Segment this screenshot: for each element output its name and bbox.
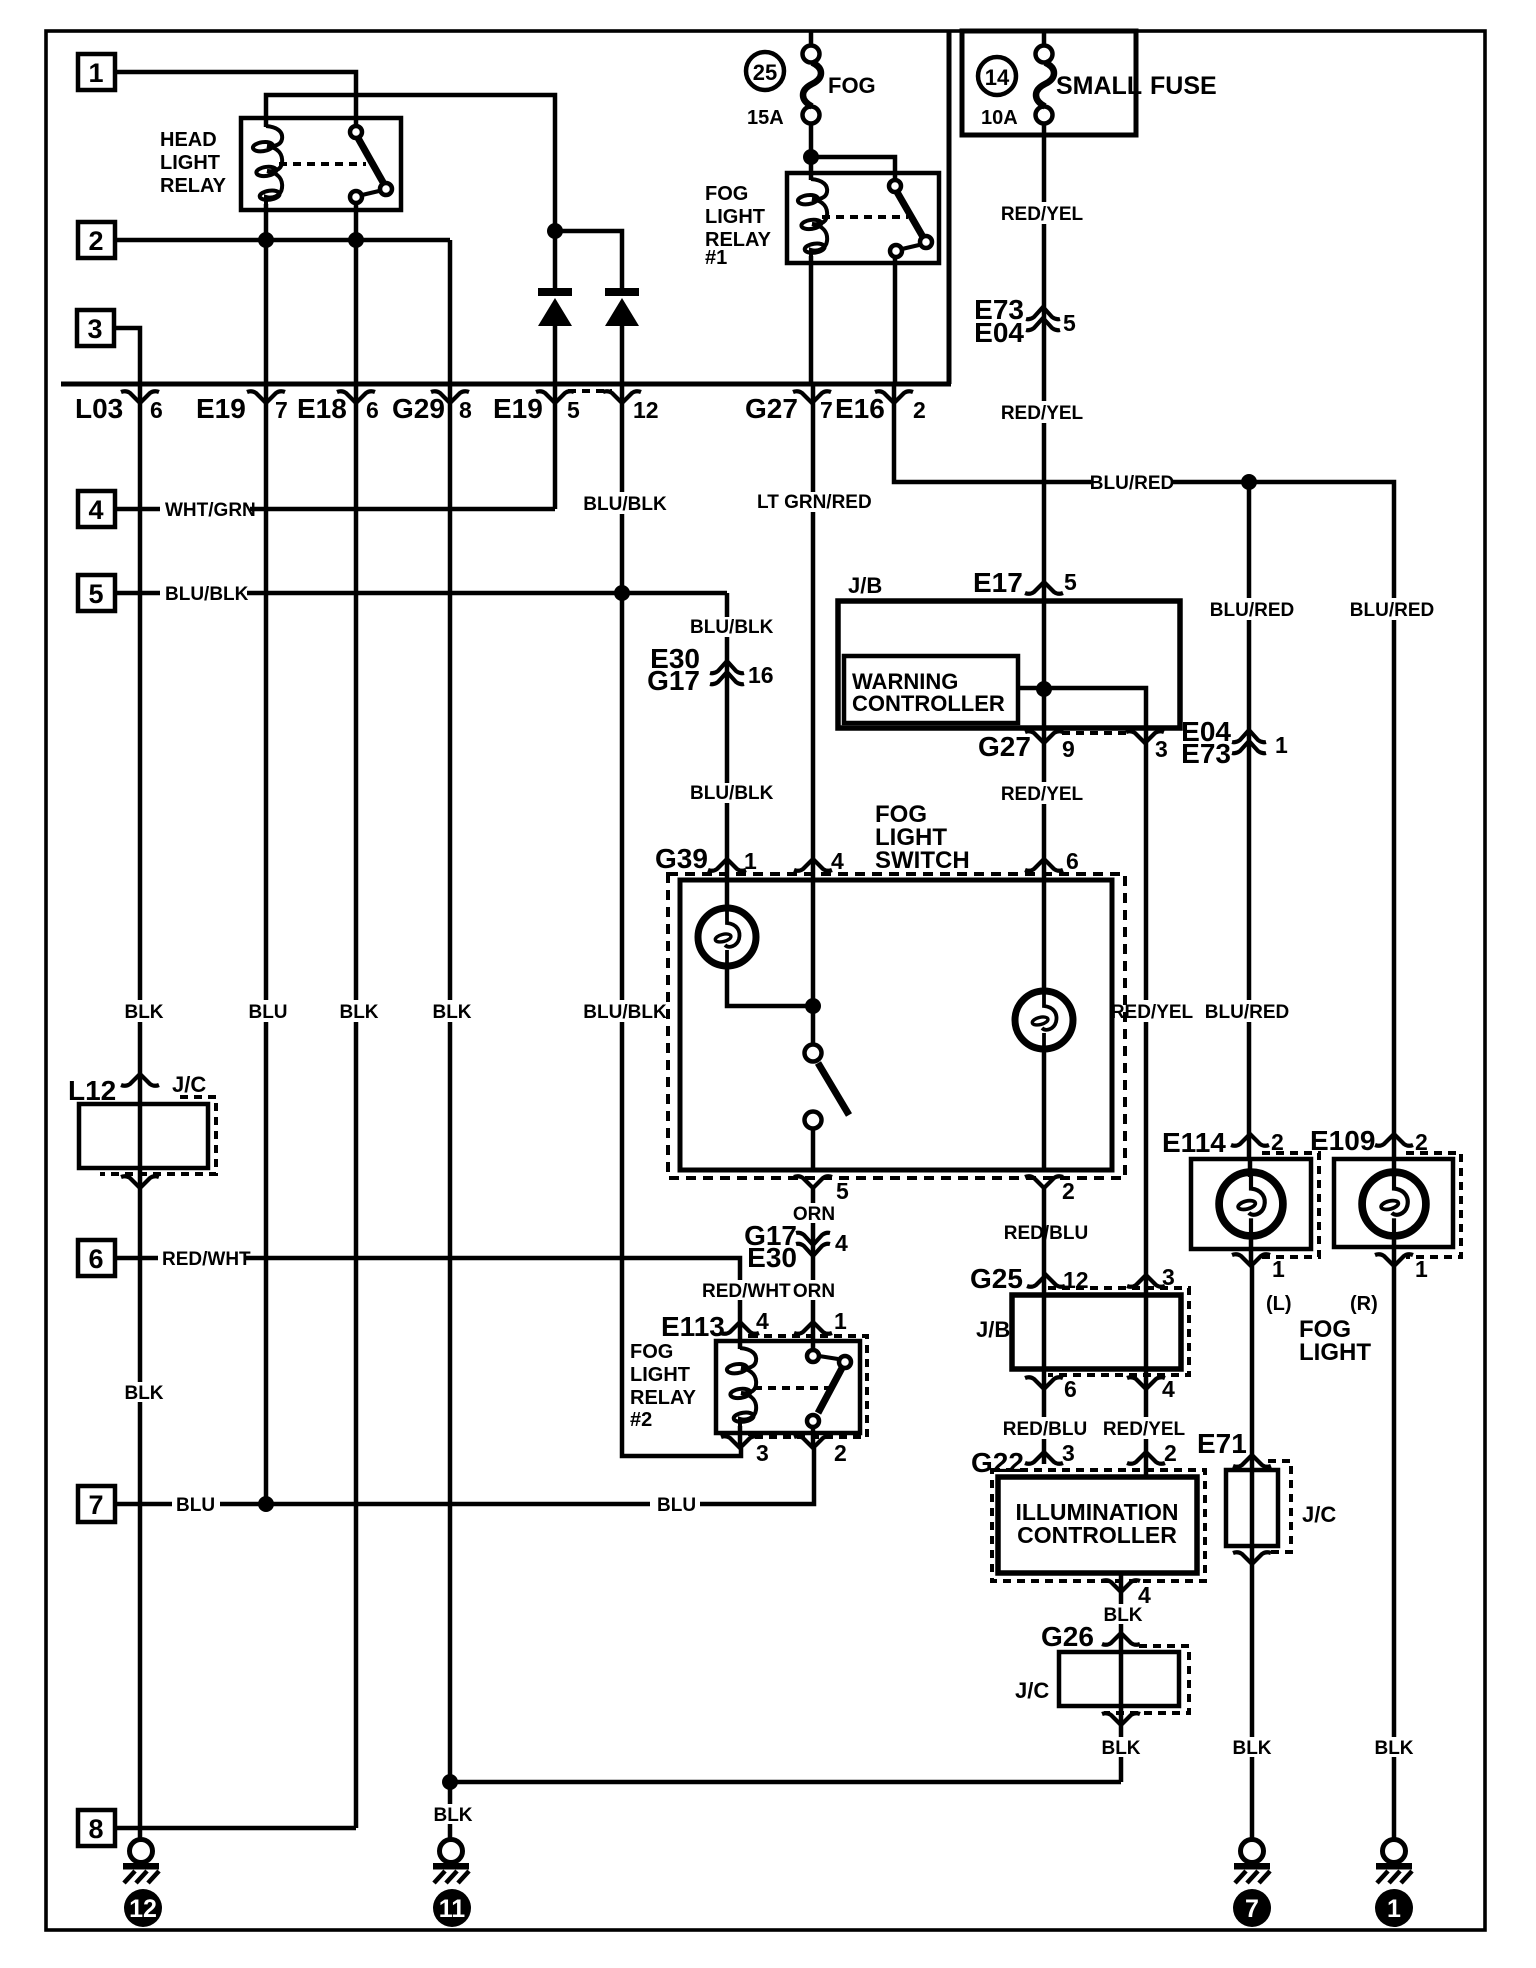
- connector E17-5: [1025, 582, 1063, 594]
- connector pin 12 (dashed pair): [603, 391, 641, 403]
- svg-text:7: 7: [88, 1490, 103, 1520]
- svg-text:BLU/BLK: BLU/BLK: [165, 584, 249, 605]
- svg-text:BLU/BLK: BLU/BLK: [690, 617, 774, 638]
- wire from box 3 to L03 line: [114, 328, 140, 384]
- label BLU/BLK near box4 level on x622 line: [583, 492, 667, 515]
- connector G22-2: [1127, 1452, 1165, 1464]
- ground 1: [1376, 1840, 1412, 1884]
- svg-text:J/C: J/C: [1302, 1502, 1336, 1527]
- svg-text:RED/YEL: RED/YEL: [1001, 403, 1084, 424]
- svg-text:4: 4: [835, 1230, 848, 1256]
- label ORN: [793, 1203, 835, 1225]
- svg-text:1: 1: [1272, 1256, 1285, 1282]
- connector G39-2: [1025, 1176, 1063, 1188]
- svg-text:LIGHT: LIGHT: [705, 206, 765, 228]
- svg-text:3: 3: [756, 1440, 769, 1466]
- connector E18-6: [337, 391, 375, 403]
- wire BLK from G22-4 down through G26: [1119, 1592, 1124, 1782]
- wire coil stub: [809, 157, 814, 180]
- fuse 14 element: [1036, 46, 1055, 124]
- svg-text:1: 1: [88, 58, 103, 88]
- label BLU/RED on x1249 lower: [1205, 1000, 1289, 1023]
- connector E114-1: [1232, 1254, 1270, 1266]
- wire coil stub: [264, 118, 269, 127]
- node: junction dot above relay: [803, 149, 819, 165]
- wire switch bottom to node: [354, 203, 359, 240]
- connector E16-2: [875, 391, 913, 403]
- solid J/C box: [1059, 1652, 1179, 1706]
- svg-text:6: 6: [150, 397, 163, 423]
- solid J/B box: [1012, 1295, 1181, 1369]
- dashed outline: [1262, 1153, 1319, 1257]
- svg-text:E17: E17: [973, 567, 1023, 598]
- connector G27-9: [1025, 731, 1063, 743]
- svg-text:E114: E114: [1162, 1127, 1226, 1158]
- wire: horizontal bus: [61, 382, 951, 387]
- svg-text:BLU/BLK: BLU/BLK: [583, 1002, 667, 1023]
- connector E113-3: [721, 1436, 759, 1448]
- wire x813 inside switch: [811, 874, 816, 1044]
- connector E114-2: [1231, 1134, 1269, 1146]
- wire LT GRN/RED from bus G27-7 down to switch G39-4: [811, 384, 816, 874]
- svg-text:G26: G26: [1041, 1621, 1094, 1652]
- fuse 25 circled number: [746, 52, 784, 90]
- fuse 25 element: [803, 46, 822, 124]
- svg-text:WHT/GRN: WHT/GRN: [165, 500, 256, 521]
- svg-text:FOG: FOG: [705, 183, 748, 205]
- label BLK on L03 line: [124, 1000, 164, 1023]
- svg-text:1: 1: [1275, 732, 1288, 758]
- connector G27-7: [793, 391, 831, 403]
- wire fuse to junction: [809, 124, 814, 157]
- wire ORN from switch pin5: [811, 1188, 816, 1341]
- dashed outline: [992, 1470, 1205, 1581]
- svg-text:4: 4: [831, 848, 844, 874]
- dashed outline: [1268, 1461, 1291, 1552]
- connector E30/G17-16 double chevron: [710, 661, 744, 684]
- svg-text:BLU/BLK: BLU/BLK: [583, 494, 667, 515]
- node: junction dot BLU/RED: [1241, 474, 1257, 490]
- svg-text:RED/WHT: RED/WHT: [702, 1281, 791, 1302]
- svg-text:L03: L03: [75, 393, 123, 424]
- wire RED/YEL x1044 J/B to switch: [1042, 601, 1047, 874]
- wire RED/WHT from box 6 to E113 pin4: [115, 1256, 158, 1261]
- svg-text:BLK: BLK: [433, 1805, 472, 1826]
- svg-text:E109: E109: [1310, 1125, 1375, 1156]
- connector E113-2: [794, 1436, 832, 1448]
- label RED/WHT above E113: [700, 1280, 791, 1302]
- svg-text:1: 1: [1387, 1895, 1401, 1923]
- solid J/C box: [1226, 1470, 1278, 1546]
- svg-text:4: 4: [88, 495, 103, 525]
- label BLK on G29 line: [432, 1000, 472, 1023]
- label RED/YEL below G27-9: [1001, 782, 1084, 805]
- svg-text:7: 7: [820, 397, 833, 423]
- connector E04/E73-1 double chevron: [1232, 730, 1266, 753]
- svg-text:LIGHT: LIGHT: [1299, 1339, 1371, 1366]
- svg-text:E73: E73: [1181, 738, 1231, 769]
- connector E71 bottom chevron: [1233, 1552, 1271, 1564]
- wire G29 line BLK: [448, 240, 453, 1839]
- svg-text:BLU/BLK: BLU/BLK: [690, 783, 774, 804]
- svg-text:5: 5: [567, 397, 580, 423]
- svg-text:BLK: BLK: [432, 1002, 471, 1023]
- solid box: [1191, 1159, 1311, 1249]
- solid J/C box: [79, 1104, 208, 1168]
- svg-text:E04: E04: [974, 317, 1024, 348]
- svg-text:E71: E71: [1197, 1428, 1247, 1459]
- wire BLU/BLK line x622 down to E113 pin3: [622, 593, 741, 1456]
- fuse 14 circled number: [978, 57, 1016, 95]
- svg-text:J/C: J/C: [172, 1072, 206, 1097]
- svg-text:HEAD: HEAD: [160, 129, 217, 151]
- diode D1: [538, 288, 572, 326]
- svg-text:11: 11: [439, 1895, 466, 1923]
- dashed actuation link: [279, 162, 366, 166]
- svg-text:J/C: J/C: [1015, 1678, 1049, 1703]
- svg-text:#1: #1: [705, 247, 727, 269]
- connector G25-4: [1127, 1377, 1165, 1389]
- svg-text:(R): (R): [1350, 1293, 1378, 1315]
- warning controller U1 box: [844, 656, 1018, 723]
- wire E109 down to ground 1: [1392, 1266, 1397, 1839]
- svg-text:8: 8: [459, 397, 472, 423]
- svg-text:RED/WHT: RED/WHT: [162, 1249, 251, 1270]
- svg-text:FOG: FOG: [828, 73, 876, 98]
- label BLK on E18 line: [339, 1000, 379, 1023]
- wire from E114 pin1 down to ground 7: [1250, 1266, 1255, 1839]
- wire BLK horizontal to G26: [450, 1780, 1121, 1785]
- wire L03 line BLK: [138, 384, 143, 1839]
- connector G25-12: [1027, 1275, 1065, 1287]
- connector L12 bottom chevron: [121, 1176, 159, 1188]
- svg-text:5: 5: [1063, 310, 1076, 336]
- svg-text:BLK: BLK: [339, 1002, 378, 1023]
- connector G17/E30-4 double chevron: [796, 1233, 830, 1256]
- svg-text:BLK: BLK: [1232, 1738, 1271, 1759]
- connector E109-1: [1375, 1254, 1413, 1266]
- dashed actuation link: [754, 1386, 838, 1390]
- connector E19-7: [247, 391, 285, 403]
- svg-text:RED/YEL: RED/YEL: [1001, 204, 1084, 225]
- svg-text:25: 25: [753, 60, 777, 85]
- wire BLU/BLK from box 5: [115, 591, 160, 596]
- svg-text:ORN: ORN: [793, 1204, 835, 1225]
- svg-text:BLK: BLK: [124, 1383, 163, 1404]
- wire fuse top stub: [809, 31, 814, 46]
- label ORN lower: [793, 1280, 835, 1302]
- svg-text:1: 1: [1415, 1256, 1428, 1282]
- svg-text:G22: G22: [971, 1447, 1024, 1478]
- label BLU/BLK on x727 line lower: [688, 783, 774, 804]
- connector E113-1: [794, 1322, 832, 1334]
- svg-text:J/B: J/B: [976, 1317, 1010, 1342]
- wire E18 line BLK: [354, 240, 359, 1828]
- svg-text:L12: L12: [68, 1075, 116, 1106]
- connector G22-3: [1025, 1452, 1063, 1464]
- node: junction dot on diode-12 line: [614, 585, 630, 601]
- label BLU/BLK on x622 line: [583, 1000, 667, 1023]
- relay K2 contacts and blade: [889, 180, 901, 192]
- svg-text:3: 3: [1155, 736, 1168, 762]
- ground 11: [433, 1840, 469, 1884]
- svg-text:2: 2: [834, 1440, 847, 1466]
- svg-text:1: 1: [744, 848, 757, 874]
- dashed outline: [100, 1097, 216, 1174]
- svg-text:LIGHT: LIGHT: [630, 1364, 690, 1386]
- svg-text:3: 3: [87, 314, 102, 344]
- label RED/YEL below G25: [1103, 1417, 1186, 1440]
- connector G22-4: [1102, 1580, 1140, 1592]
- wire lamp1 to switch node: [727, 966, 813, 1006]
- svg-text:RED/YEL: RED/YEL: [1103, 1419, 1186, 1440]
- relay K3 fog light relay 2 body: [716, 1341, 860, 1433]
- wire fuse top stub: [1042, 31, 1047, 46]
- node: junction dot E19 line: [258, 232, 274, 248]
- label BLK: [124, 1382, 164, 1404]
- solid box: [1334, 1159, 1453, 1247]
- svg-text:BLK: BLK: [124, 1002, 163, 1023]
- connector L12 top chevron: [121, 1074, 159, 1086]
- svg-text:14: 14: [985, 65, 1010, 90]
- svg-text:7: 7: [1245, 1895, 1259, 1923]
- label BLK below: [1101, 1737, 1141, 1759]
- label BLU/RED on horizontal: [1090, 471, 1174, 494]
- svg-text:SWITCH: SWITCH: [875, 847, 970, 874]
- switch blade: [818, 1063, 849, 1115]
- diode D2: [605, 288, 639, 326]
- label RED/BLU above G25: [1004, 1221, 1088, 1244]
- connector G29-8: [431, 391, 469, 403]
- wire: vertical from top border to bus: [947, 31, 952, 384]
- svg-text:RED/YEL: RED/YEL: [1001, 784, 1084, 805]
- connector G25-3: [1127, 1275, 1165, 1287]
- label BLU/BLK on x727 line upper: [688, 617, 774, 638]
- node: junction dot on E19/BLU line: [258, 1496, 274, 1512]
- label BLK: [1103, 1604, 1143, 1626]
- label RED/YEL on x1146: [1111, 1000, 1194, 1023]
- connector E19-5: [536, 391, 574, 403]
- wire switch bottom to bus E16-2: [893, 257, 898, 384]
- svg-text:G39: G39: [655, 843, 708, 874]
- svg-text:E19: E19: [196, 393, 246, 424]
- relay K1 contacts and blade: [350, 126, 362, 138]
- svg-text:G27: G27: [745, 393, 798, 424]
- node: junction dot diode branch: [547, 223, 563, 239]
- svg-text:#2: #2: [630, 1409, 652, 1431]
- svg-text:E16: E16: [835, 393, 885, 424]
- svg-text:G17: G17: [647, 665, 700, 696]
- connector E71 top chevron: [1233, 1455, 1271, 1467]
- connector G39-1: [708, 859, 746, 871]
- svg-text:J/B: J/B: [848, 573, 882, 598]
- wire E16 down and right: [894, 384, 1394, 1159]
- svg-text:9: 9: [1062, 736, 1075, 762]
- svg-text:BLU/RED: BLU/RED: [1210, 600, 1294, 621]
- label BLK: [1374, 1737, 1414, 1759]
- connector G26 top chevron: [1102, 1633, 1140, 1645]
- svg-text:2: 2: [88, 226, 103, 256]
- wire from box 8 to E18 line: [115, 1826, 356, 1831]
- label BLU on E19 line: [248, 1000, 288, 1023]
- svg-text:6: 6: [88, 1244, 103, 1274]
- wire from box 1 to head light relay switch: [115, 72, 356, 126]
- connector L03-6: [121, 391, 159, 403]
- junction block J/B box: [838, 601, 1180, 728]
- node: junction dot in J/B: [1036, 681, 1052, 697]
- svg-text:BLK: BLK: [1374, 1738, 1413, 1759]
- wire branch to second diode: [555, 231, 622, 288]
- svg-text:6: 6: [366, 397, 379, 423]
- wire WHT/GRN from box 4: [115, 507, 160, 512]
- connector G26 bottom chevron: [1102, 1713, 1140, 1725]
- dashed outline: [1048, 1288, 1189, 1375]
- svg-text:3: 3: [1062, 1440, 1075, 1466]
- label BLU/RED on x1394: [1350, 598, 1434, 621]
- svg-text:15A: 15A: [747, 107, 784, 129]
- connector G39-6: [1025, 859, 1063, 871]
- svg-text:1: 1: [834, 1308, 847, 1334]
- connector E113-4: [721, 1322, 759, 1334]
- connector E109-2: [1375, 1134, 1413, 1146]
- dashed outer box: [668, 874, 1125, 1178]
- dashed pair bracket 9-3: [1062, 731, 1128, 735]
- switch contact bottom: [805, 1112, 822, 1129]
- wire coil bottom to bus G27-7: [809, 256, 814, 384]
- svg-text:BLK: BLK: [1103, 1605, 1142, 1626]
- ground 12: [123, 1840, 159, 1884]
- svg-text:5: 5: [88, 579, 103, 609]
- wire RED/YEL fuse to J/B E17-5: [1042, 124, 1047, 601]
- svg-text:SMALL: SMALL: [1056, 72, 1142, 100]
- relay coil: [726, 1348, 756, 1426]
- relay coil: [252, 126, 282, 204]
- dashed outline: [1406, 1153, 1461, 1257]
- svg-text:2: 2: [1062, 1178, 1075, 1204]
- connector G39-5: [794, 1176, 832, 1188]
- wire coil stubs: [738, 1341, 743, 1349]
- label BLK on G29 line below junction: [433, 1804, 473, 1826]
- svg-text:6: 6: [1066, 848, 1079, 874]
- dashed outline: [750, 1336, 867, 1437]
- svg-text:16: 16: [748, 662, 774, 688]
- label RED/BLU below G25: [1003, 1417, 1087, 1440]
- dashed actuation link: [822, 215, 908, 219]
- relay K2 fog light relay 1 body: [787, 173, 939, 263]
- svg-text:BLU: BLU: [176, 1495, 215, 1516]
- svg-text:FOG: FOG: [630, 1341, 673, 1363]
- svg-text:BLU: BLU: [248, 1002, 287, 1023]
- node: junction dot in switch: [805, 998, 821, 1014]
- ground 7: [1234, 1840, 1270, 1884]
- svg-text:4: 4: [756, 1308, 769, 1334]
- svg-text:FUSE: FUSE: [1150, 72, 1217, 100]
- svg-text:CONTROLLER: CONTROLLER: [1017, 1522, 1177, 1548]
- svg-text:2: 2: [1164, 1440, 1177, 1466]
- svg-text:4: 4: [1162, 1376, 1175, 1402]
- wire to chevron 4: [1119, 1573, 1124, 1592]
- relay K1 head light relay body: [241, 118, 401, 210]
- solid controller box: [998, 1477, 1197, 1573]
- svg-text:E19: E19: [493, 393, 543, 424]
- wire RED/YEL from G27-3 down: [1144, 743, 1149, 1477]
- svg-text:BLU/RED: BLU/RED: [1205, 1002, 1289, 1023]
- svg-text:LT GRN/RED: LT GRN/RED: [757, 492, 872, 513]
- wire E19 line BLU: [264, 240, 269, 1504]
- svg-text:CONTROLLER: CONTROLLER: [852, 691, 1005, 716]
- node: junction dot E18 line: [348, 232, 364, 248]
- relay K3 contacts and blade: [811, 1341, 816, 1349]
- svg-text:5: 5: [836, 1178, 849, 1204]
- fuse box outline: [962, 31, 1136, 135]
- lamp E109 fog light bulb (R): [1392, 1159, 1397, 1177]
- wire: coil top to diode line: [266, 95, 555, 231]
- svg-text:ORN: ORN: [793, 1281, 835, 1302]
- svg-text:E113: E113: [661, 1311, 725, 1342]
- node: junction dot on G29 line: [442, 1774, 458, 1790]
- label BLU/RED on x1249: [1210, 598, 1294, 621]
- svg-text:BLU: BLU: [657, 1495, 696, 1516]
- connector G39-4: [794, 859, 832, 871]
- switch S1 contacts: [805, 1045, 822, 1062]
- svg-text:6: 6: [1064, 1376, 1077, 1402]
- svg-text:LIGHT: LIGHT: [160, 152, 220, 174]
- svg-text:8: 8: [88, 1814, 103, 1844]
- svg-text:RED/BLU: RED/BLU: [1003, 1419, 1087, 1440]
- svg-text:G25: G25: [970, 1263, 1023, 1294]
- label LT GRN/RED: [753, 492, 872, 513]
- svg-text:7: 7: [275, 397, 288, 423]
- svg-text:12: 12: [129, 1895, 157, 1923]
- connector E73/E04-5 double chevron: [1026, 307, 1060, 330]
- wire BLU/BLK branch x727 to G39-1: [725, 593, 730, 874]
- svg-text:RELAY: RELAY: [630, 1387, 697, 1409]
- lamp L1 switch illumination bulb: [725, 874, 730, 908]
- dashed outline: [1104, 1646, 1189, 1713]
- relay coil: [797, 179, 827, 257]
- wire junction to switch contact: [811, 157, 895, 180]
- wire RED/BLU from switch pin2 through G25: [1042, 1188, 1047, 1464]
- svg-text:(L): (L): [1266, 1293, 1292, 1315]
- connector G25-6: [1025, 1377, 1063, 1389]
- wire from warning controller: [1018, 688, 1146, 743]
- lamp L2 switch indicator bulb: [1042, 874, 1047, 991]
- lamp E114 fog light bulb (L): [1248, 1159, 1253, 1177]
- svg-text:G29: G29: [392, 393, 445, 424]
- svg-text:E30: E30: [747, 1242, 797, 1273]
- svg-text:2: 2: [913, 397, 926, 423]
- svg-text:RELAY: RELAY: [160, 175, 227, 197]
- svg-text:E18: E18: [297, 393, 347, 424]
- svg-text:BLK: BLK: [1101, 1738, 1140, 1759]
- svg-text:BLU/RED: BLU/RED: [1350, 600, 1434, 621]
- wire BLU from box 7 to E113 pin2: [115, 1502, 172, 1507]
- svg-text:BLU/RED: BLU/RED: [1090, 473, 1174, 494]
- svg-text:10A: 10A: [981, 107, 1018, 129]
- svg-text:5: 5: [1064, 569, 1077, 595]
- wire from box 2 to G29 line corner: [115, 238, 450, 243]
- wire BLU/RED branch down to E114: [1247, 482, 1252, 1159]
- wire coil bottom to node: [264, 204, 269, 240]
- svg-text:12: 12: [633, 397, 659, 423]
- connector G27-3: [1126, 731, 1164, 743]
- svg-text:G27: G27: [978, 731, 1031, 762]
- solid inner box: [680, 880, 1112, 1170]
- label BLK: [1232, 1737, 1272, 1759]
